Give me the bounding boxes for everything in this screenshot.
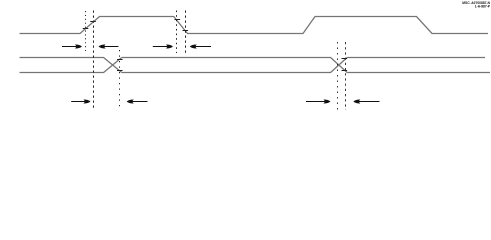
svg-text:1-A-887-P: 1-A-887-P (475, 5, 491, 9)
